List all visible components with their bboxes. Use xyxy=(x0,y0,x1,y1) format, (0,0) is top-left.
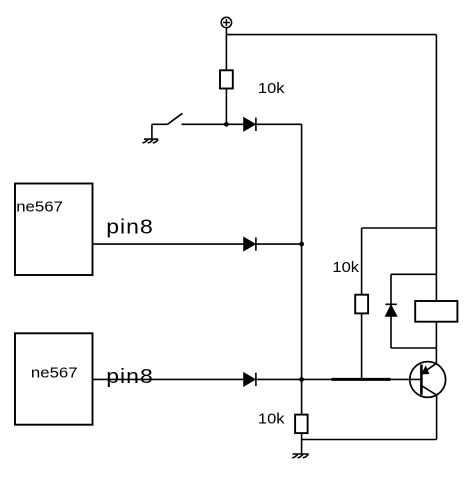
wire vertical bus xyxy=(301,124,303,414)
power supply V+ symbol xyxy=(221,17,231,27)
wire D1 cathode to bus xyxy=(256,123,302,125)
wire flyback loop top xyxy=(391,273,436,275)
wire node A to diode D1 xyxy=(226,123,243,125)
svg-text:ne567: ne567 xyxy=(16,199,63,215)
diode D3 xyxy=(244,373,256,386)
node A junction dot xyxy=(224,122,229,127)
wire branch horizontal from R2 top to right rail xyxy=(362,227,437,229)
wire D3 cathode to bus node C xyxy=(256,378,302,380)
svg-text:pin8: pin8 xyxy=(106,365,154,388)
diode D1 xyxy=(244,118,256,131)
ground (bottom) xyxy=(292,454,309,458)
wire U1 pin8 to diode D2 xyxy=(93,243,244,245)
svg-text:pin8: pin8 xyxy=(106,215,154,238)
wire R4 bottom to ground xyxy=(301,433,303,454)
switch SW1 lever (open) xyxy=(168,113,183,124)
node B junction dot xyxy=(299,242,304,247)
wire D2 cathode to bus node B xyxy=(256,243,302,245)
svg-text:ne567: ne567 xyxy=(31,365,78,381)
svg-text:10k: 10k xyxy=(258,81,285,97)
IC U1 ne567 box xyxy=(15,184,93,276)
resistor R1 10k (top) xyxy=(220,70,233,88)
wire U2 pin8 to diode D3 xyxy=(93,378,244,380)
diode D2 xyxy=(244,237,256,250)
svg-text:10k: 10k xyxy=(332,260,359,276)
wire R2 bottom to base row xyxy=(361,313,363,379)
wire top power rail horizontal xyxy=(226,34,436,36)
diode D4 flyback xyxy=(385,304,396,316)
svg-text:10k: 10k xyxy=(258,411,285,427)
wire bottom horizontal collector to R4 node xyxy=(302,439,437,441)
wire right rail vertical down to relay xyxy=(435,35,437,301)
wire transistor collector down xyxy=(436,395,438,439)
resistor R4 10k (bottom) xyxy=(295,415,308,434)
node C junction dot xyxy=(299,377,304,382)
wire flyback loop bottom xyxy=(391,347,437,349)
wire switch contact to node A xyxy=(182,123,227,125)
wire thick base segment xyxy=(332,378,391,381)
wire R1 bottom to switch node xyxy=(225,89,227,125)
wire rail relay bottom to transistor emitter xyxy=(435,322,437,364)
transistor Q1 xyxy=(410,362,446,398)
resistor R2 10k (middle) xyxy=(355,295,368,314)
wire R2 branch vertical top xyxy=(361,228,363,295)
wire ground to switch pivot xyxy=(152,123,168,125)
wire node C to transistor base xyxy=(302,378,422,380)
ground (switch side) xyxy=(142,124,158,143)
wire flyback loop left vertical xyxy=(390,274,392,348)
wire power symbol down to resistor R1 xyxy=(225,28,227,71)
IC U2 ne567 box xyxy=(15,333,93,424)
relay K1 coil box xyxy=(415,301,457,322)
